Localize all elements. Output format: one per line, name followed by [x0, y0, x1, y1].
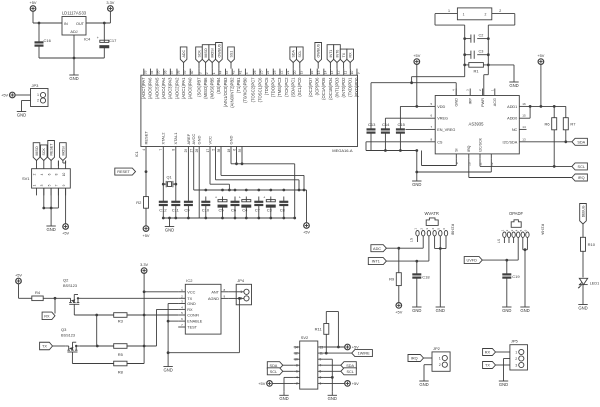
junctions VCC bus — [204, 189, 285, 192]
junctions C3 — [463, 53, 489, 56]
svg-text:JP3: JP3 — [32, 83, 40, 88]
svg-text:11: 11 — [479, 162, 483, 165]
svg-text:16: 16 — [310, 70, 314, 74]
svg-text:20: 20 — [293, 70, 297, 74]
wire flag INT1 to pin — [329, 63, 331, 69]
net flag ADC — [371, 245, 387, 252]
svg-text:43: 43 — [225, 70, 229, 74]
svg-text:14: 14 — [323, 70, 327, 74]
svg-text:I2C/SCK: I2C/SCK — [478, 137, 482, 152]
supply +5V at R4 — [15, 272, 22, 283]
connector JP5 — [510, 339, 528, 370]
svg-text:6: 6 — [296, 370, 298, 374]
supply +5V at ADD pins — [537, 53, 544, 64]
svg-text:SCL: SCL — [578, 165, 585, 169]
svg-text:+5V: +5V — [352, 345, 359, 350]
wire SV2 pin13 +5V — [324, 346, 345, 348]
wire GND pin IC2 — [168, 304, 178, 364]
capacitor C18 — [412, 261, 430, 303]
svg-text:(TMS)PC3: (TMS)PC3 — [277, 77, 282, 97]
svg-text:IRQ: IRQ — [467, 145, 471, 152]
svg-text:37: 37 — [170, 70, 174, 74]
svg-text:6: 6 — [47, 173, 51, 175]
wire SI to gnd — [422, 151, 457, 166]
svg-text:13: 13 — [320, 345, 324, 349]
RF module IC2 — [178, 278, 228, 334]
svg-text:17: 17 — [206, 149, 210, 153]
net flag SDA (AS3935) — [572, 138, 588, 145]
svg-text:(ICP)PD6: (ICP)PD6 — [315, 77, 320, 96]
junction VCC pin5 bus — [298, 189, 301, 192]
wire +5V to SV2 pin2 — [272, 382, 293, 384]
svg-text:IRP: IRP — [469, 98, 473, 105]
svg-text:AVCC: AVCC — [191, 134, 196, 145]
wire ADJ to ground rail — [39, 35, 104, 58]
connector JP4 — [236, 278, 251, 305]
svg-text:R10: R10 — [588, 242, 596, 247]
svg-text:JP5: JP5 — [511, 339, 519, 344]
wire flag OWBUS to pin — [317, 63, 319, 69]
svg-text:AS3935: AS3935 — [469, 122, 485, 127]
capacitor C3 — [263, 196, 275, 218]
svg-text:1: 1 — [212, 72, 216, 74]
net flag SS1 — [228, 47, 235, 63]
svg-text:29: 29 — [184, 149, 188, 153]
svg-text:10: 10 — [350, 70, 354, 74]
svg-text:C6: C6 — [231, 207, 237, 212]
ground IC2 — [163, 363, 172, 372]
svg-text:+5V: +5V — [142, 233, 149, 238]
svg-text:+5V: +5V — [15, 272, 22, 277]
svg-text:C13: C13 — [368, 122, 376, 127]
net flag RX (JP5) — [483, 349, 496, 356]
svg-text:2: 2 — [37, 99, 39, 103]
svg-text:LD1117AS33: LD1117AS33 — [62, 11, 87, 16]
svg-text:IN: IN — [64, 22, 68, 26]
svg-text:ANT: ANT — [211, 290, 219, 294]
wire INT1 to WVATR pin3 — [386, 242, 429, 261]
junction VCC 3.3V — [143, 290, 146, 293]
wire +5V to JP3 pin1 — [15, 94, 30, 96]
wire pin12 to gnd — [417, 159, 492, 172]
svg-text:C8: C8 — [280, 207, 286, 212]
net flag INT1 — [327, 45, 334, 63]
ground AS3935 — [412, 178, 421, 187]
net flag INT1 (sensor) — [368, 258, 386, 265]
wire LED1 to gnd — [582, 285, 584, 301]
wire Q3 gate line — [72, 355, 113, 364]
supply +5V at JP3 — [1, 92, 15, 98]
svg-text:OWBUS: OWBUS — [317, 43, 321, 57]
svg-text:14: 14 — [294, 345, 298, 349]
svg-text:(ADC7)PA7: (ADC7)PA7 — [141, 77, 146, 99]
wire UVFD to OPADF pin4 — [482, 243, 518, 260]
junction antenna gnd line — [410, 81, 413, 84]
svg-text:C4: C4 — [242, 207, 248, 212]
junction C18 top — [415, 260, 418, 263]
svg-text:C17: C17 — [109, 38, 117, 43]
wire flag MISO to pin — [205, 63, 207, 69]
svg-text:+5V: +5V — [413, 53, 420, 58]
ground SV1 — [46, 223, 55, 232]
wire VREG line — [385, 118, 428, 126]
wire R7 bottom — [565, 130, 567, 142]
junction SV2 right gnd — [331, 376, 334, 379]
junction gnd vertical — [415, 171, 418, 174]
svg-text:R11: R11 — [315, 326, 323, 331]
svg-text:(RXD)PD0: (RXD)PD0 — [354, 77, 359, 97]
wire DEBUG to R10 — [582, 224, 584, 237]
net flag RX — [347, 49, 354, 62]
wire flag SDA to pin — [292, 63, 294, 69]
svg-text:+: + — [97, 36, 99, 40]
svg-text:I2C/SDA: I2C/SDA — [503, 140, 518, 144]
svg-text:1: 1 — [37, 93, 39, 97]
supply +5V (regulator input) — [29, 0, 36, 11]
resistor R4 — [32, 290, 43, 301]
wire WVATR gnd pins — [435, 242, 446, 304]
svg-text:(TDO)PC4: (TDO)PC4 — [271, 77, 276, 97]
svg-text:RX: RX — [485, 351, 491, 355]
svg-text:RESET: RESET — [143, 131, 148, 145]
wire OPADF gnd pins — [523, 243, 528, 304]
wire ADD1 line — [527, 106, 566, 117]
wire GND pins route — [231, 152, 295, 218]
svg-text:5: 5 — [320, 370, 322, 374]
svg-text:(TCK)PC2: (TCK)PC2 — [284, 77, 289, 97]
svg-text:(SCK)PB7: (SCK)PB7 — [196, 77, 201, 97]
wire Q3 drain line — [80, 309, 179, 346]
svg-text:7: 7 — [159, 149, 163, 151]
wire R9 leads — [398, 248, 400, 302]
svg-text:C3: C3 — [479, 50, 484, 54]
wire JP2 pin2 gnd — [424, 365, 432, 378]
svg-text:UVFD: UVFD — [466, 259, 477, 263]
svg-text:12: 12 — [294, 351, 298, 355]
net flag DEBUG — [580, 204, 587, 225]
svg-text:(TOSC2)PC7: (TOSC2)PC7 — [251, 77, 256, 102]
net flag IRQ (AS3935) — [572, 174, 588, 181]
svg-text:R9: R9 — [389, 277, 395, 282]
ground SV2 left — [279, 392, 288, 401]
svg-text:RX: RX — [44, 314, 50, 318]
svg-text:IC4: IC4 — [84, 37, 91, 42]
net flag TX (module) — [40, 342, 53, 350]
net flag MOSI — [60, 143, 67, 161]
svg-text:R13-6A: R13-6A — [541, 224, 545, 236]
crystal Q1 — [163, 176, 176, 188]
svg-text:C12: C12 — [159, 207, 167, 212]
svg-text:MEGA16-A: MEGA16-A — [332, 148, 353, 153]
svg-text:27: 27 — [190, 149, 194, 153]
svg-text:(SDA)PC1: (SDA)PC1 — [291, 77, 296, 97]
wire R11 hook to +5V — [326, 312, 338, 348]
junction C17 top — [103, 22, 106, 25]
net flag SCL — [297, 47, 304, 63]
svg-text:C5: C5 — [219, 207, 225, 212]
wire JP4 to gnd — [168, 298, 239, 352]
wire IRQ to JP2 — [424, 357, 433, 359]
svg-text:8: 8 — [55, 173, 59, 175]
wire Q2 gate riser — [96, 315, 98, 346]
junction R11 1WIRE — [325, 352, 328, 355]
svg-text:DEBUG: DEBUG — [582, 205, 586, 217]
svg-text:(OC1B)PD4: (OC1B)PD4 — [328, 77, 333, 100]
svg-text:8: 8 — [296, 364, 298, 368]
svg-text:+5V: +5V — [303, 230, 310, 235]
wire SV1 +5V pin — [65, 188, 67, 224]
wire SV2 pin9 gnd — [324, 359, 332, 392]
svg-text:14: 14 — [522, 125, 526, 129]
svg-text:(INT1)PD3: (INT1)PD3 — [334, 77, 339, 98]
svg-text:3: 3 — [515, 363, 517, 367]
svg-text:(ADC0)PA0: (ADC0)PA0 — [188, 77, 193, 99]
wire flag RX to pin — [349, 63, 351, 69]
svg-text:Q3: Q3 — [61, 327, 67, 332]
svg-text:C2: C2 — [479, 34, 484, 38]
svg-text:21: 21 — [286, 70, 290, 74]
svg-text:(OC2)PD7: (OC2)PD7 — [308, 77, 313, 97]
wire XTAL1 down — [175, 152, 177, 202]
svg-text:25: 25 — [260, 70, 264, 74]
svg-text:LS: LS — [497, 239, 501, 243]
svg-text:VDD: VDD — [437, 105, 445, 109]
svg-text:GND: GND — [499, 382, 508, 387]
svg-text:11: 11 — [343, 71, 347, 75]
junction ground rail — [73, 57, 76, 60]
svg-text:(AIN0/INT2)PB2: (AIN0/INT2)PB2 — [229, 77, 234, 108]
resistor R8 — [114, 361, 127, 374]
svg-text:LED1: LED1 — [590, 282, 600, 286]
svg-text:SCL: SCL — [298, 51, 302, 58]
junction GND rail right — [293, 217, 296, 220]
junction R7 SDA — [564, 140, 567, 143]
svg-text:26: 26 — [253, 70, 257, 74]
capacitor C13 — [367, 122, 377, 151]
svg-text:39: 39 — [183, 70, 187, 74]
junction OPADF gnd — [524, 248, 527, 251]
svg-text:GND: GND — [165, 227, 174, 232]
wire SCL right — [324, 370, 341, 372]
resistor R1 — [469, 63, 484, 74]
junction R9 top — [397, 247, 400, 250]
svg-text:WVATR: WVATR — [424, 211, 439, 216]
wire IRQ line — [469, 159, 572, 178]
svg-text:(INT0)PD2: (INT0)PD2 — [341, 77, 346, 98]
capacitor C8 — [279, 197, 288, 219]
wire RESET pin down — [145, 152, 147, 197]
svg-text:R6: R6 — [544, 121, 550, 126]
svg-text:9: 9 — [357, 72, 361, 74]
wire +5V to IN and C16 — [33, 11, 62, 23]
svg-text:10: 10 — [467, 162, 471, 166]
svg-text:1WIRE: 1WIRE — [358, 352, 370, 356]
svg-text:33: 33 — [143, 70, 147, 74]
capacitor C15 — [396, 122, 406, 151]
svg-text:1: 1 — [463, 13, 465, 17]
wire R1 leads — [465, 64, 489, 66]
wire VCC pin 38 route — [221, 152, 304, 190]
svg-text:Q2: Q2 — [63, 278, 69, 283]
svg-text:RX: RX — [187, 308, 193, 312]
capacitor C16 — [35, 23, 52, 58]
svg-text:BSS123: BSS123 — [61, 334, 75, 338]
svg-text:R7: R7 — [570, 121, 576, 126]
svg-text:(T0/XCK)PB0: (T0/XCK)PB0 — [243, 77, 248, 103]
wire SV2 pin3 gnd — [324, 376, 332, 378]
svg-text:R8: R8 — [118, 369, 124, 374]
junction C16 top — [38, 22, 41, 25]
net flag RESET — [115, 168, 136, 175]
svg-text:GND: GND — [187, 302, 196, 306]
ground OPADF — [520, 304, 529, 313]
svg-text:CONFI: CONFI — [187, 314, 199, 318]
wire AGND to JP4 — [228, 297, 244, 299]
capacitor C10 — [201, 197, 210, 219]
svg-text:ENABLE: ENABLE — [187, 320, 202, 324]
svg-text:GND: GND — [419, 382, 428, 387]
wire Q2 drain to TX pin — [82, 297, 179, 299]
svg-text:11: 11 — [320, 351, 324, 355]
svg-text:INT1: INT1 — [372, 260, 380, 264]
wire JP3 pin2 to ground — [22, 101, 31, 109]
svg-text:R1: R1 — [474, 68, 480, 73]
svg-text:(TDI)PC5: (TDI)PC5 — [264, 77, 269, 95]
junctions SV1 gnd — [42, 207, 52, 210]
svg-text:4: 4 — [245, 72, 249, 74]
wire 3.3V vertical — [143, 273, 145, 346]
net flag SCL (SV2 left) — [267, 368, 283, 375]
wire RX to JP5 — [496, 351, 510, 353]
svg-text:+5V: +5V — [352, 381, 359, 386]
svg-text:(T1)PB1: (T1)PB1 — [236, 77, 241, 93]
junction RX node — [54, 297, 57, 300]
resistor R6 — [544, 118, 556, 130]
svg-text:GND: GND — [578, 305, 587, 310]
wire antenna left lead — [435, 14, 465, 77]
svg-text:1: 1 — [515, 350, 517, 354]
supply +5V at SV2 pin1 — [345, 381, 359, 387]
svg-text:15: 15 — [522, 114, 526, 118]
wire SDA right — [324, 364, 341, 366]
wire R6 leads — [553, 106, 555, 166]
svg-text:42: 42 — [232, 70, 236, 74]
resistor R5 — [114, 344, 127, 357]
IC1 top pins ports A B C D — [141, 69, 360, 108]
svg-text:JP2: JP2 — [433, 346, 441, 351]
capacitor C14 — [381, 122, 390, 151]
svg-text:R4: R4 — [35, 290, 41, 295]
svg-text:GND: GND — [520, 308, 529, 313]
capacitor C7 — [254, 197, 263, 219]
resistor R11 — [315, 324, 329, 335]
svg-text:6: 6 — [232, 149, 236, 151]
svg-text:AREF: AREF — [186, 133, 191, 144]
junction VDD +5V — [415, 105, 418, 108]
wire SDA line — [527, 141, 572, 143]
svg-text:OWBUS: OWBUS — [217, 43, 221, 57]
svg-text:41: 41 — [238, 70, 242, 74]
svg-text:4: 4 — [142, 149, 146, 151]
svg-text:SCK: SCK — [42, 148, 46, 156]
svg-text:PWR: PWR — [481, 98, 485, 107]
net flag 1WIRE — [352, 350, 373, 357]
svg-text:TX: TX — [42, 345, 47, 349]
junction R6 SCL — [553, 165, 556, 168]
capacitor C19 — [502, 260, 520, 303]
svg-text:Q1: Q1 — [167, 176, 172, 180]
wire antenna right lead — [488, 14, 515, 65]
wire +5V to ADD line — [540, 64, 542, 106]
svg-text:+5V: +5V — [62, 231, 69, 236]
svg-text:SCL: SCL — [270, 370, 277, 374]
supply +5V at SV1 — [62, 224, 69, 236]
svg-text:ACG: ACG — [493, 98, 497, 106]
svg-text:GND: GND — [502, 308, 511, 313]
ground SV2 right — [328, 392, 337, 401]
svg-text:GND: GND — [279, 396, 288, 401]
capacitor C4 — [239, 196, 251, 218]
svg-text:7: 7 — [320, 364, 322, 368]
svg-text:GND: GND — [436, 308, 445, 313]
supply 3.3V (regulator output) — [106, 0, 114, 11]
svg-text:MISO: MISO — [204, 48, 208, 57]
resistor R10 — [581, 237, 596, 251]
svg-text:SV2: SV2 — [301, 335, 309, 340]
svg-text:15: 15 — [317, 70, 321, 74]
svg-text:3: 3 — [199, 72, 203, 74]
svg-text:(SS)PB4: (SS)PB4 — [216, 77, 221, 94]
svg-text:39: 39 — [238, 149, 242, 153]
svg-text:C15: C15 — [398, 122, 406, 127]
svg-text:IC2: IC2 — [186, 278, 193, 283]
capacitor C3 — [465, 50, 489, 59]
svg-text:3: 3 — [320, 376, 322, 380]
svg-text:12: 12 — [337, 70, 341, 74]
svg-text:(MISO)PB6: (MISO)PB6 — [203, 77, 208, 99]
svg-text:22: 22 — [280, 70, 284, 74]
net flag OWBUS — [315, 43, 322, 63]
wire CS line — [366, 142, 428, 151]
svg-text:TX: TX — [342, 52, 346, 57]
wire SCL left — [283, 370, 294, 372]
lightning sensor IC3 AS3935 — [428, 89, 527, 166]
svg-text:AGND: AGND — [208, 297, 219, 301]
junction WVATR gnd — [439, 247, 442, 250]
svg-text:(OC1A)PD5: (OC1A)PD5 — [321, 77, 326, 100]
svg-text:(ADC2)PA2: (ADC2)PA2 — [174, 77, 179, 99]
net flag MOSI — [209, 45, 216, 63]
wire antenna gnd hook — [484, 65, 489, 96]
svg-text:R3: R3 — [118, 318, 124, 323]
svg-text:+: + — [215, 196, 217, 200]
svg-text:GND: GND — [46, 227, 55, 232]
svg-text:19: 19 — [299, 70, 303, 74]
svg-text:5: 5 — [211, 149, 215, 151]
wire SV2 pin1 +5V — [324, 382, 345, 384]
microcontroller IC1 MEGA16-A — [135, 75, 357, 157]
supply +5V right of cap rail — [303, 223, 310, 235]
wire TX to JP5 — [496, 364, 510, 366]
supply +5V at R9 — [395, 303, 402, 315]
junctions crystal — [162, 183, 177, 186]
wire XTAL2 down — [162, 152, 164, 202]
wire flag INT0 to pin — [336, 63, 338, 69]
svg-text:GND: GND — [412, 182, 421, 187]
svg-text:(MOSI)PB5: (MOSI)PB5 — [210, 77, 215, 99]
antenna coil L1 — [448, 8, 501, 20]
svg-text:2: 2 — [33, 173, 37, 175]
